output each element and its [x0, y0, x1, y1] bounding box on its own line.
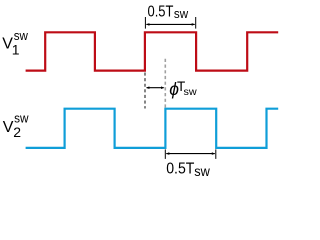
dimension top 0.5Tsw: right tick — [195, 17, 197, 29]
dashed line at red rising edge (black) — [144, 73, 146, 109]
dimension bottom 0.5Tsw: left tick — [164, 149, 166, 159]
dimension top 0.5Tsw: left tick — [144, 17, 146, 29]
svg-text:sw: sw — [14, 28, 29, 43]
label V2sw — [3, 111, 29, 140]
label phi Tsw — [169, 79, 197, 99]
svg-text:sw: sw — [174, 6, 189, 21]
dashed line at blue rising edge (gray) — [164, 59, 166, 109]
phase shift double arrow — [146, 86, 164, 89]
svg-text:0.5T: 0.5T — [148, 3, 174, 20]
svg-text:1: 1 — [12, 41, 20, 57]
dimension bottom 0.5Tsw: double arrow — [166, 152, 215, 155]
dimension top 0.5Tsw: double arrow — [146, 23, 195, 26]
dimension bottom: text 0.5Tsw — [166, 161, 210, 180]
waveform V2sw (blue square wave) — [26, 109, 279, 148]
svg-text:sw: sw — [194, 164, 210, 179]
svg-text:sw: sw — [14, 111, 29, 126]
dimension top: text 0.5Tsw — [148, 3, 189, 20]
waveform V1sw (red square wave) — [26, 32, 279, 70]
svg-text:0.5T: 0.5T — [166, 161, 194, 178]
svg-text:2: 2 — [13, 124, 21, 140]
dimension bottom 0.5Tsw: right tick — [215, 149, 217, 159]
svg-text:sw: sw — [184, 86, 198, 98]
label V1sw — [2, 28, 28, 57]
svg-text:V: V — [3, 119, 14, 136]
